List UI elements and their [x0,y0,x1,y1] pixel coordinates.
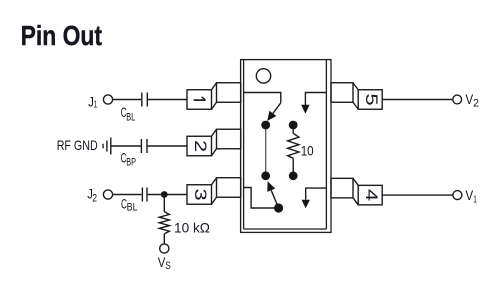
svg-text:10: 10 [301,143,314,158]
svg-text:S: S [165,260,171,272]
svg-text:BL: BL [127,202,138,214]
svg-text:RF GND: RF GND [57,138,98,153]
svg-text:1: 1 [94,98,98,110]
svg-text:2: 2 [473,98,479,110]
svg-text:BP: BP [126,157,136,169]
svg-text:2: 2 [92,193,97,205]
svg-text:5: 5 [362,93,381,105]
svg-text:BL: BL [126,111,135,123]
svg-text:10 kΩ: 10 kΩ [174,221,210,236]
svg-text:3: 3 [191,188,210,200]
svg-text:4: 4 [362,189,381,201]
svg-text:2: 2 [191,140,210,152]
svg-text:1: 1 [473,194,477,206]
svg-text:Pin Out: Pin Out [21,20,102,51]
